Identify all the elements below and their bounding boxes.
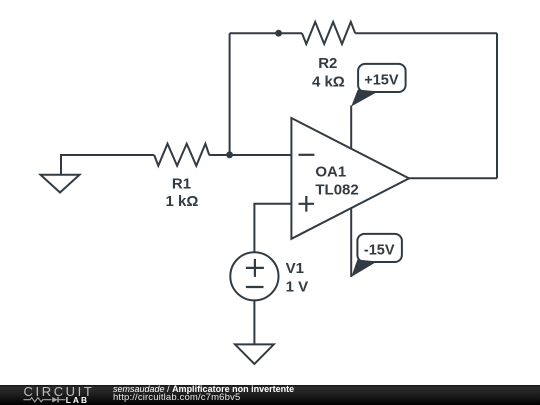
op-amp non-inverting input plus symbol xyxy=(299,196,315,212)
junction node at inverting input xyxy=(226,151,233,158)
label R1 value 1 kOhm xyxy=(166,193,199,210)
svg-text:TL082: TL082 xyxy=(315,182,358,199)
svg-text:OA1: OA1 xyxy=(315,164,346,181)
svg-text:4 kΩ: 4 kΩ xyxy=(312,74,345,91)
footer url text xyxy=(113,392,240,403)
wire +15V power pin xyxy=(350,106,352,150)
footer bar xyxy=(0,385,540,405)
label V1 xyxy=(286,260,304,277)
label R1 xyxy=(172,176,191,193)
wire R2 to right vertical xyxy=(355,32,497,34)
svg-text:1 V: 1 V xyxy=(286,279,309,296)
footer title text xyxy=(113,384,294,394)
resistor R2 xyxy=(302,22,355,44)
label R2 value 4 kOhm xyxy=(312,74,345,91)
svg-text:+15V: +15V xyxy=(364,72,399,88)
svg-text:R1: R1 xyxy=(172,176,191,193)
V1 minus symbol xyxy=(246,286,264,288)
power flag +15V xyxy=(351,64,405,107)
op-amp OA1 triangle xyxy=(291,118,409,239)
wire output xyxy=(409,177,498,179)
wire left ground to R1 xyxy=(61,155,154,175)
voltage source V1 xyxy=(230,252,278,300)
label V1 value 1 V xyxy=(286,279,309,296)
wire feedback left vertical xyxy=(229,33,231,155)
label R2 xyxy=(318,55,337,72)
wire top left to R2 xyxy=(230,32,302,34)
resistor R1 xyxy=(154,144,209,166)
ground GND1 (left) xyxy=(41,175,80,193)
wire -15V power pin xyxy=(350,208,352,278)
svg-text:1 kΩ: 1 kΩ xyxy=(166,193,199,210)
junction node on top wire xyxy=(275,30,282,37)
label OA1 xyxy=(315,164,346,181)
op-amp inverting input minus symbol xyxy=(299,154,315,156)
ground GND2 (below V1) xyxy=(235,344,274,364)
svg-text:V1: V1 xyxy=(286,260,304,277)
CircuitLab logo xyxy=(0,384,110,405)
svg-text:R2: R2 xyxy=(318,55,337,72)
wire V1 to non-inverting input xyxy=(254,204,291,252)
svg-text:-15V: -15V xyxy=(364,242,395,258)
label OA1 part TL082 xyxy=(315,182,358,199)
wire R1 to op-amp inverting input xyxy=(209,154,291,156)
wire V1 to ground xyxy=(253,300,255,344)
svg-text:LAB: LAB xyxy=(66,395,89,405)
wire right vertical xyxy=(496,33,498,178)
V1 plus symbol xyxy=(246,259,264,277)
power flag -15V xyxy=(351,234,402,277)
